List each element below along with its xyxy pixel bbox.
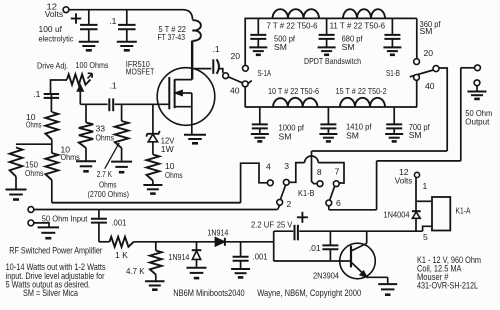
wire node R2-R3-R4 <box>16 140 52 154</box>
capacitor C4 0.1 coupling <box>109 98 113 111</box>
label R2 10 Ohms <box>26 112 42 130</box>
svg-text:.001: .001 <box>253 252 268 262</box>
capacitor C1 100uf electrolytic <box>80 10 98 42</box>
svg-text:.01: .01 <box>309 243 321 253</box>
capacitor C15 .01 <box>322 231 338 261</box>
svg-text:SM: SM <box>420 26 433 36</box>
resistor R6 2.7K Ohms <box>115 104 129 161</box>
label pin 5 <box>423 232 428 242</box>
ground C13 <box>231 269 250 277</box>
svg-text:15 T # 22 T50-2: 15 T # 22 T50-2 <box>336 86 387 96</box>
relay K1-B pin6 contact <box>326 200 332 206</box>
svg-text:5: 5 <box>423 232 428 242</box>
label R7 10 Ohms <box>165 161 183 180</box>
capacitor C9 1000pf SM <box>252 107 268 134</box>
svg-text:3: 3 <box>284 161 289 171</box>
label C10 1410pf SM <box>346 122 372 141</box>
svg-text:Wayne, NB6M, Copyright 2000: Wayne, NB6M, Copyright 2000 <box>257 288 361 298</box>
capacitor C3 0.1 gate bias <box>44 94 59 113</box>
diode D4 1N4004 <box>412 201 421 231</box>
svg-text:1 K: 1 K <box>115 250 128 260</box>
ground R9 <box>145 281 165 289</box>
label C15 .01 <box>309 243 321 253</box>
svg-text:K1-A: K1-A <box>456 205 471 215</box>
label R5 33 Ohms <box>96 124 115 143</box>
switch S-1A 40m contact <box>242 81 248 107</box>
capacitor C12 .001 series <box>91 210 107 242</box>
svg-text:Ohms: Ohms <box>165 170 183 180</box>
label C14 2.2UF 25V <box>251 219 293 229</box>
svg-text:20: 20 <box>231 51 241 61</box>
terminal output J2 hot <box>461 65 481 71</box>
svg-text:S1-B: S1-B <box>386 68 400 78</box>
label S1-B 40 <box>425 81 435 91</box>
svg-text:.1: .1 <box>213 44 220 54</box>
resistor R7 10 Ohms <box>147 155 160 185</box>
resistor R3 150 Ohms <box>10 148 23 190</box>
ground C1 <box>79 42 99 51</box>
inductor L5 15T #22 T50-2 <box>340 98 385 107</box>
label L3 <box>330 20 386 30</box>
switch S1-B 20m contact <box>414 18 420 64</box>
relay K1-B arm pin3-pin2 <box>280 185 285 200</box>
label Q1 IFR510 MOSFET <box>126 59 155 77</box>
label S-1A <box>258 68 272 78</box>
label R3 150 Ohms <box>25 160 44 179</box>
capacitor C11 700pf SM <box>386 107 402 134</box>
label D1 12V 1W <box>161 135 175 154</box>
label K1 spec line3 <box>417 272 449 282</box>
ground input jack <box>38 227 60 238</box>
label description line2 <box>6 271 105 281</box>
label 50 Ohm Input <box>42 213 88 223</box>
label L1 <box>158 24 187 42</box>
ground Q1 source <box>184 135 206 144</box>
switch S-1A pole contact <box>223 73 229 79</box>
label R9 4.7K <box>126 266 145 276</box>
switch S-1A 20m contact <box>243 18 249 71</box>
label pin 4 <box>266 162 271 172</box>
label DPDT Bandswitch <box>304 56 361 66</box>
label SM = Silver Mica <box>23 288 78 298</box>
svg-text:.1: .1 <box>110 80 117 90</box>
svg-text:2: 2 <box>287 199 292 209</box>
wire S1-B pole to K1-B pin8 <box>312 151 448 184</box>
label C12 .001 <box>111 218 126 228</box>
ground R5 <box>76 161 96 171</box>
svg-text:Volts: Volts <box>45 9 64 19</box>
terminal output J2 ground <box>474 80 480 91</box>
label pin 1 <box>423 181 428 191</box>
label pin 3 <box>284 161 289 171</box>
label R4 10 Ohms <box>61 145 80 163</box>
label K1-A <box>456 205 471 215</box>
inductor L2 7T #22 T50-6 <box>273 9 320 18</box>
svg-text:Ohms: Ohms <box>25 168 44 178</box>
ground C11 <box>385 134 403 141</box>
ground Q2 emitter <box>378 284 397 295</box>
label C2 .1 <box>109 16 116 26</box>
label S1-B 20 <box>424 48 434 58</box>
svg-text:S-1A: S-1A <box>258 68 272 78</box>
inductor L1 5T #22 FT37-43 choke <box>183 10 201 80</box>
label L5 <box>336 86 387 96</box>
svg-text:.001: .001 <box>111 218 126 228</box>
wire ground bus <box>52 202 241 204</box>
label Q2 2N3904 <box>313 271 339 281</box>
wire 12V to K1-A pin1 <box>416 178 432 202</box>
svg-text:11 T # 22 T50-6: 11 T # 22 T50-6 <box>330 20 386 30</box>
svg-text:Ohms: Ohms <box>26 119 42 129</box>
svg-text:7: 7 <box>335 167 340 177</box>
resistor R8 1K <box>110 237 134 247</box>
wire drain to C5 <box>192 68 212 70</box>
label K1 spec line1 <box>417 255 481 265</box>
relay K1-B pin3 contact <box>283 179 289 185</box>
label C1 100uf <box>39 24 75 43</box>
label C13 .001 <box>253 252 268 262</box>
label description line3 <box>6 279 91 289</box>
relay K1-B pin4 contact <box>267 180 273 186</box>
wire bus to K1-B pin4 <box>241 163 268 203</box>
svg-text:electrolytic: electrolytic <box>39 34 75 44</box>
svg-text:.1: .1 <box>109 16 116 26</box>
label C5 .1 <box>213 44 220 54</box>
resistor R4 10 Ohms <box>45 153 58 203</box>
svg-text:100 Ohms: 100 Ohms <box>76 60 109 70</box>
ground C10 <box>319 134 337 141</box>
wire filter row1 <box>245 17 417 19</box>
label D4 1N4004 <box>384 210 410 220</box>
label D2 1N914 <box>168 252 189 262</box>
switch S1-B pole contact <box>433 66 447 151</box>
svg-text:2.7 K: 2.7 K <box>97 169 113 179</box>
label pin 7 <box>335 167 340 177</box>
label S-1A 20 <box>231 51 241 61</box>
label 50 Ohm Output <box>465 108 492 126</box>
svg-text:50 Ohm Input: 50 Ohm Input <box>42 213 88 223</box>
zener diode D1 12V 1W <box>146 104 160 154</box>
resistor R2 10 Ohms <box>45 112 58 140</box>
svg-text:DPDT Bandswitch: DPDT Bandswitch <box>304 56 361 66</box>
resistor R9 4.7K <box>150 242 162 281</box>
svg-text:RF Switched Power Amplifier: RF Switched Power Amplifier <box>9 246 102 256</box>
svg-text:4.7 K: 4.7 K <box>126 266 145 276</box>
label K1 spec line4 <box>417 281 478 291</box>
resistor R5 33 Ohms <box>79 104 93 161</box>
svg-text:1N4004: 1N4004 <box>384 210 410 220</box>
ground C2 <box>117 42 137 51</box>
label pin 2 <box>287 199 292 209</box>
ground C8 <box>383 47 401 54</box>
transistor Q1 IFR510 MOSFET <box>157 41 215 135</box>
wire sense line <box>99 241 274 243</box>
capacitor C14 2.2UF 25V <box>295 225 298 241</box>
svg-text:431-OVR-SH-212L: 431-OVR-SH-212L <box>417 281 478 291</box>
ground output jack <box>468 92 487 99</box>
relay coil K1-A <box>432 197 450 231</box>
svg-text:.1: .1 <box>33 89 40 99</box>
label pin 8 <box>317 167 322 177</box>
ground R6 <box>111 162 132 173</box>
ground C9 <box>251 134 269 141</box>
svg-text:FT 37-43: FT 37-43 <box>158 32 186 42</box>
svg-text:NB6M Miniboots2040: NB6M Miniboots2040 <box>173 288 245 298</box>
svg-text:40: 40 <box>425 81 435 91</box>
svg-text:Drive Adj.: Drive Adj. <box>37 61 68 71</box>
relay K1-B arm pin7-pin6 <box>330 186 335 200</box>
label R8 1K <box>115 250 128 260</box>
label S1-B <box>386 68 400 78</box>
svg-text:25 V: 25 V <box>277 219 293 229</box>
plus polarity mark C1 <box>71 13 81 23</box>
label L2 <box>267 20 318 30</box>
label S-1A 40 <box>230 86 240 96</box>
transistor Q2 2N3904 <box>340 231 388 284</box>
label C6 500pf SM <box>274 34 296 52</box>
svg-text:SM: SM <box>346 130 359 140</box>
svg-text:SM = Silver Mica: SM = Silver Mica <box>23 288 78 298</box>
svg-text:4: 4 <box>266 162 271 172</box>
label C4 .1 <box>110 80 117 90</box>
wire 12V rail <box>69 9 183 11</box>
wire K1-A pin5 <box>423 226 432 231</box>
svg-text:1: 1 <box>423 181 428 191</box>
svg-text:2.2 UF: 2.2 UF <box>251 219 274 229</box>
label C7 680pf SM <box>342 34 364 52</box>
capacitor C13 .001 shunt <box>233 242 249 269</box>
capacitor C5 0.1 output coupling <box>213 59 223 74</box>
relay K1-B pin8 contact <box>317 181 323 187</box>
svg-text:10 T # 22 T50-6: 10 T # 22 T50-6 <box>268 86 319 96</box>
label copyright <box>257 288 361 298</box>
label D3 1N914 <box>207 227 228 237</box>
label description line1 <box>6 262 106 272</box>
label R6 2.7K with callout <box>88 143 130 199</box>
ground D2 <box>187 268 207 278</box>
svg-text:SM: SM <box>279 131 292 141</box>
label K1 spec line2 <box>417 263 462 273</box>
label K1-B <box>298 188 315 198</box>
ground R7 <box>143 185 162 194</box>
svg-text:20: 20 <box>424 48 434 58</box>
wire output to K1-B pin6 <box>329 68 461 210</box>
label pin 6 <box>336 198 341 208</box>
wire gate line <box>80 103 169 105</box>
ground C6 <box>249 47 267 54</box>
svg-text:8: 8 <box>317 167 322 177</box>
diode D3 1N914 series <box>215 238 225 246</box>
svg-text:40: 40 <box>230 86 240 96</box>
capacitor C8 360pf SM <box>384 18 400 47</box>
relay K1-B pin2 contact <box>277 199 283 205</box>
label C11 700pf SM <box>409 122 431 140</box>
label L4 <box>268 86 319 96</box>
switch S-1A arm <box>228 77 251 85</box>
svg-text:Ohms: Ohms <box>96 132 115 142</box>
svg-text:SM: SM <box>342 42 355 52</box>
wire input line to K1-B pin2 <box>34 205 280 209</box>
svg-text:SM: SM <box>409 130 422 140</box>
capacitor C6 500pf SM <box>250 18 266 47</box>
diode D2 1N914 shunt <box>192 242 202 268</box>
wire base network frame <box>274 231 423 261</box>
inductor L4 10T #22 T50-6 <box>273 98 318 107</box>
inductor L3 11T #22 T50-6 <box>343 9 385 18</box>
svg-text:Ohms: Ohms <box>99 179 117 189</box>
terminal input J3 hot <box>28 207 34 213</box>
svg-text:SM: SM <box>274 42 287 52</box>
plus polarity mark C14 <box>297 212 308 223</box>
terminal input J3 ground <box>28 220 49 227</box>
terminal 12V supply J1 <box>45 2 69 20</box>
svg-text:2N3904: 2N3904 <box>313 271 339 281</box>
svg-text:6: 6 <box>336 198 341 208</box>
svg-text:Output: Output <box>465 116 490 126</box>
label Drive Adj <box>37 60 109 70</box>
svg-text:K1-B: K1-B <box>298 188 315 198</box>
svg-text:(2700 Ohms): (2700 Ohms) <box>88 189 130 199</box>
potentiometer R1 100 Ohms <box>51 73 93 104</box>
capacitor C10 1410pf SM <box>320 107 336 134</box>
svg-text:MOSFET: MOSFET <box>126 67 155 77</box>
label NB6M Miniboots2040 <box>173 288 245 298</box>
svg-text:1N914: 1N914 <box>207 227 228 237</box>
svg-text:1W: 1W <box>161 144 175 154</box>
capacitor C2 0.1 <box>118 10 136 42</box>
svg-text:Volts: Volts <box>395 175 413 185</box>
capacitor C7 680pf SM <box>319 18 335 47</box>
switch S1-B arm <box>410 70 434 77</box>
terminal 12V relay J4 <box>395 167 420 185</box>
svg-text:7 T # 22 T50-6: 7 T # 22 T50-6 <box>267 20 318 30</box>
svg-text:1N914: 1N914 <box>168 252 189 262</box>
label C3 .1 <box>33 89 40 99</box>
wire K1-B pin3 to pin7 with hop <box>289 156 344 183</box>
switch S1-B 40m contact <box>414 75 420 108</box>
label C9 1000pf SM <box>279 123 305 142</box>
relay K1-B pin7 contact <box>333 181 339 187</box>
label RF Switched Power Amplifier <box>9 246 102 256</box>
ground C7 <box>318 47 336 54</box>
label C8 360pf SM <box>420 19 442 36</box>
wire filter row2 <box>245 106 417 108</box>
ground R3 <box>6 190 27 200</box>
